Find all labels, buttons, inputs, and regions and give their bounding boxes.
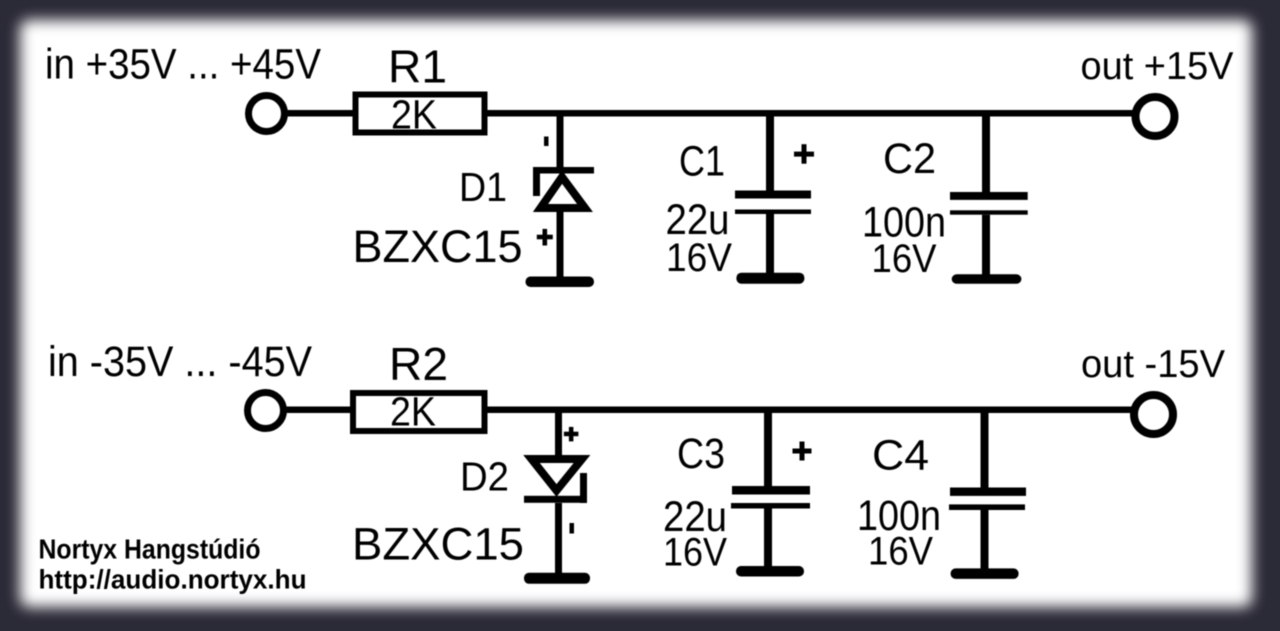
wire C1 branch upper [766,112,774,191]
node IN+ terminal [249,96,285,132]
diode D1 plus sign [537,235,553,240]
wire D1 branch upper [557,112,564,168]
diode D1 triangle [541,177,586,208]
diode D2 plus sign [564,432,579,437]
diode D2 zener hook [580,473,587,503]
svg-text:2K: 2K [390,389,436,435]
svg-text:C2: C2 [883,135,936,183]
svg-text:in -35V ... -45V: in -35V ... -45V [48,338,312,386]
diode D1 cathode bar [533,167,594,174]
svg-text:16V: 16V [872,237,937,281]
resistor R1 body [356,95,485,133]
capacitor C3 plus sign [793,449,812,454]
ground D2 [524,573,590,584]
ground D1 [526,277,595,288]
svg-text:D1: D1 [459,164,507,210]
ground C1 [736,273,804,284]
capacitor C1 top plate [735,191,811,199]
svg-text:BZXC15: BZXC15 [353,221,523,272]
wire C2 branch upper [982,112,990,192]
ground C2 [952,274,1022,284]
wire IN+ to R1 [287,110,355,117]
wire D2 branch upper [555,408,562,456]
svg-text:D2: D2 [460,454,509,500]
wire C1 branch lower [766,214,774,277]
node OUT+ terminal [1136,97,1175,136]
wire R1 to OUT+ [484,110,1135,117]
wire C4 branch lower [981,510,989,570]
svg-text:http://audio.nortyx.hu: http://audio.nortyx.hu [39,565,307,595]
svg-text:out -15V: out -15V [1081,343,1225,386]
diode D1 minus tick [544,137,549,147]
svg-text:C4: C4 [872,432,929,480]
svg-text:Nortyx Hangstúdió: Nortyx Hangstúdió [39,534,261,565]
node OUT- terminal [1134,395,1173,434]
wire D2 branch lower [555,503,562,576]
svg-text:16V: 16V [868,530,933,574]
capacitor C2 bottom plate [950,210,1028,214]
capacitor C4 bottom plate [949,504,1025,510]
svg-text:C1: C1 [679,138,725,186]
resistor R2 body [353,393,485,431]
svg-text:in +35V ... +45V: in +35V ... +45V [45,41,321,89]
svg-text:16V: 16V [663,531,727,575]
capacitor C4 top plate [950,488,1026,496]
diode D2 cathode bar [524,496,587,503]
svg-text:out +15V: out +15V [1081,45,1234,88]
capacitor C2 top plate [950,192,1028,200]
capacitor C1 bottom plate [735,210,811,215]
diode D2 minus tick [570,523,575,534]
wire C3 branch upper [764,408,772,486]
ground C3 [736,566,804,577]
ground C4 [951,568,1019,579]
svg-text:C3: C3 [677,430,725,478]
svg-text:R2: R2 [389,338,448,390]
capacitor C1 plus sign [794,152,814,157]
wire C3 branch lower [764,508,772,570]
wire R2 to OUT- [484,407,1134,414]
svg-text:R1: R1 [388,41,447,93]
capacitor C3 bottom plate [731,503,810,509]
node IN- terminal [248,393,284,429]
wire IN- to R2 [286,407,355,414]
svg-text:BZXC15: BZXC15 [352,519,524,570]
svg-text:2K: 2K [391,92,437,138]
wire C4 branch upper [981,408,989,488]
diode D2 triangle [532,459,583,491]
wire C2 branch lower [982,215,990,278]
svg-text:16V: 16V [666,236,732,280]
wire D1 branch lower [557,209,564,281]
diode D1 zener hook [533,167,540,196]
capacitor C3 top plate [732,486,810,495]
